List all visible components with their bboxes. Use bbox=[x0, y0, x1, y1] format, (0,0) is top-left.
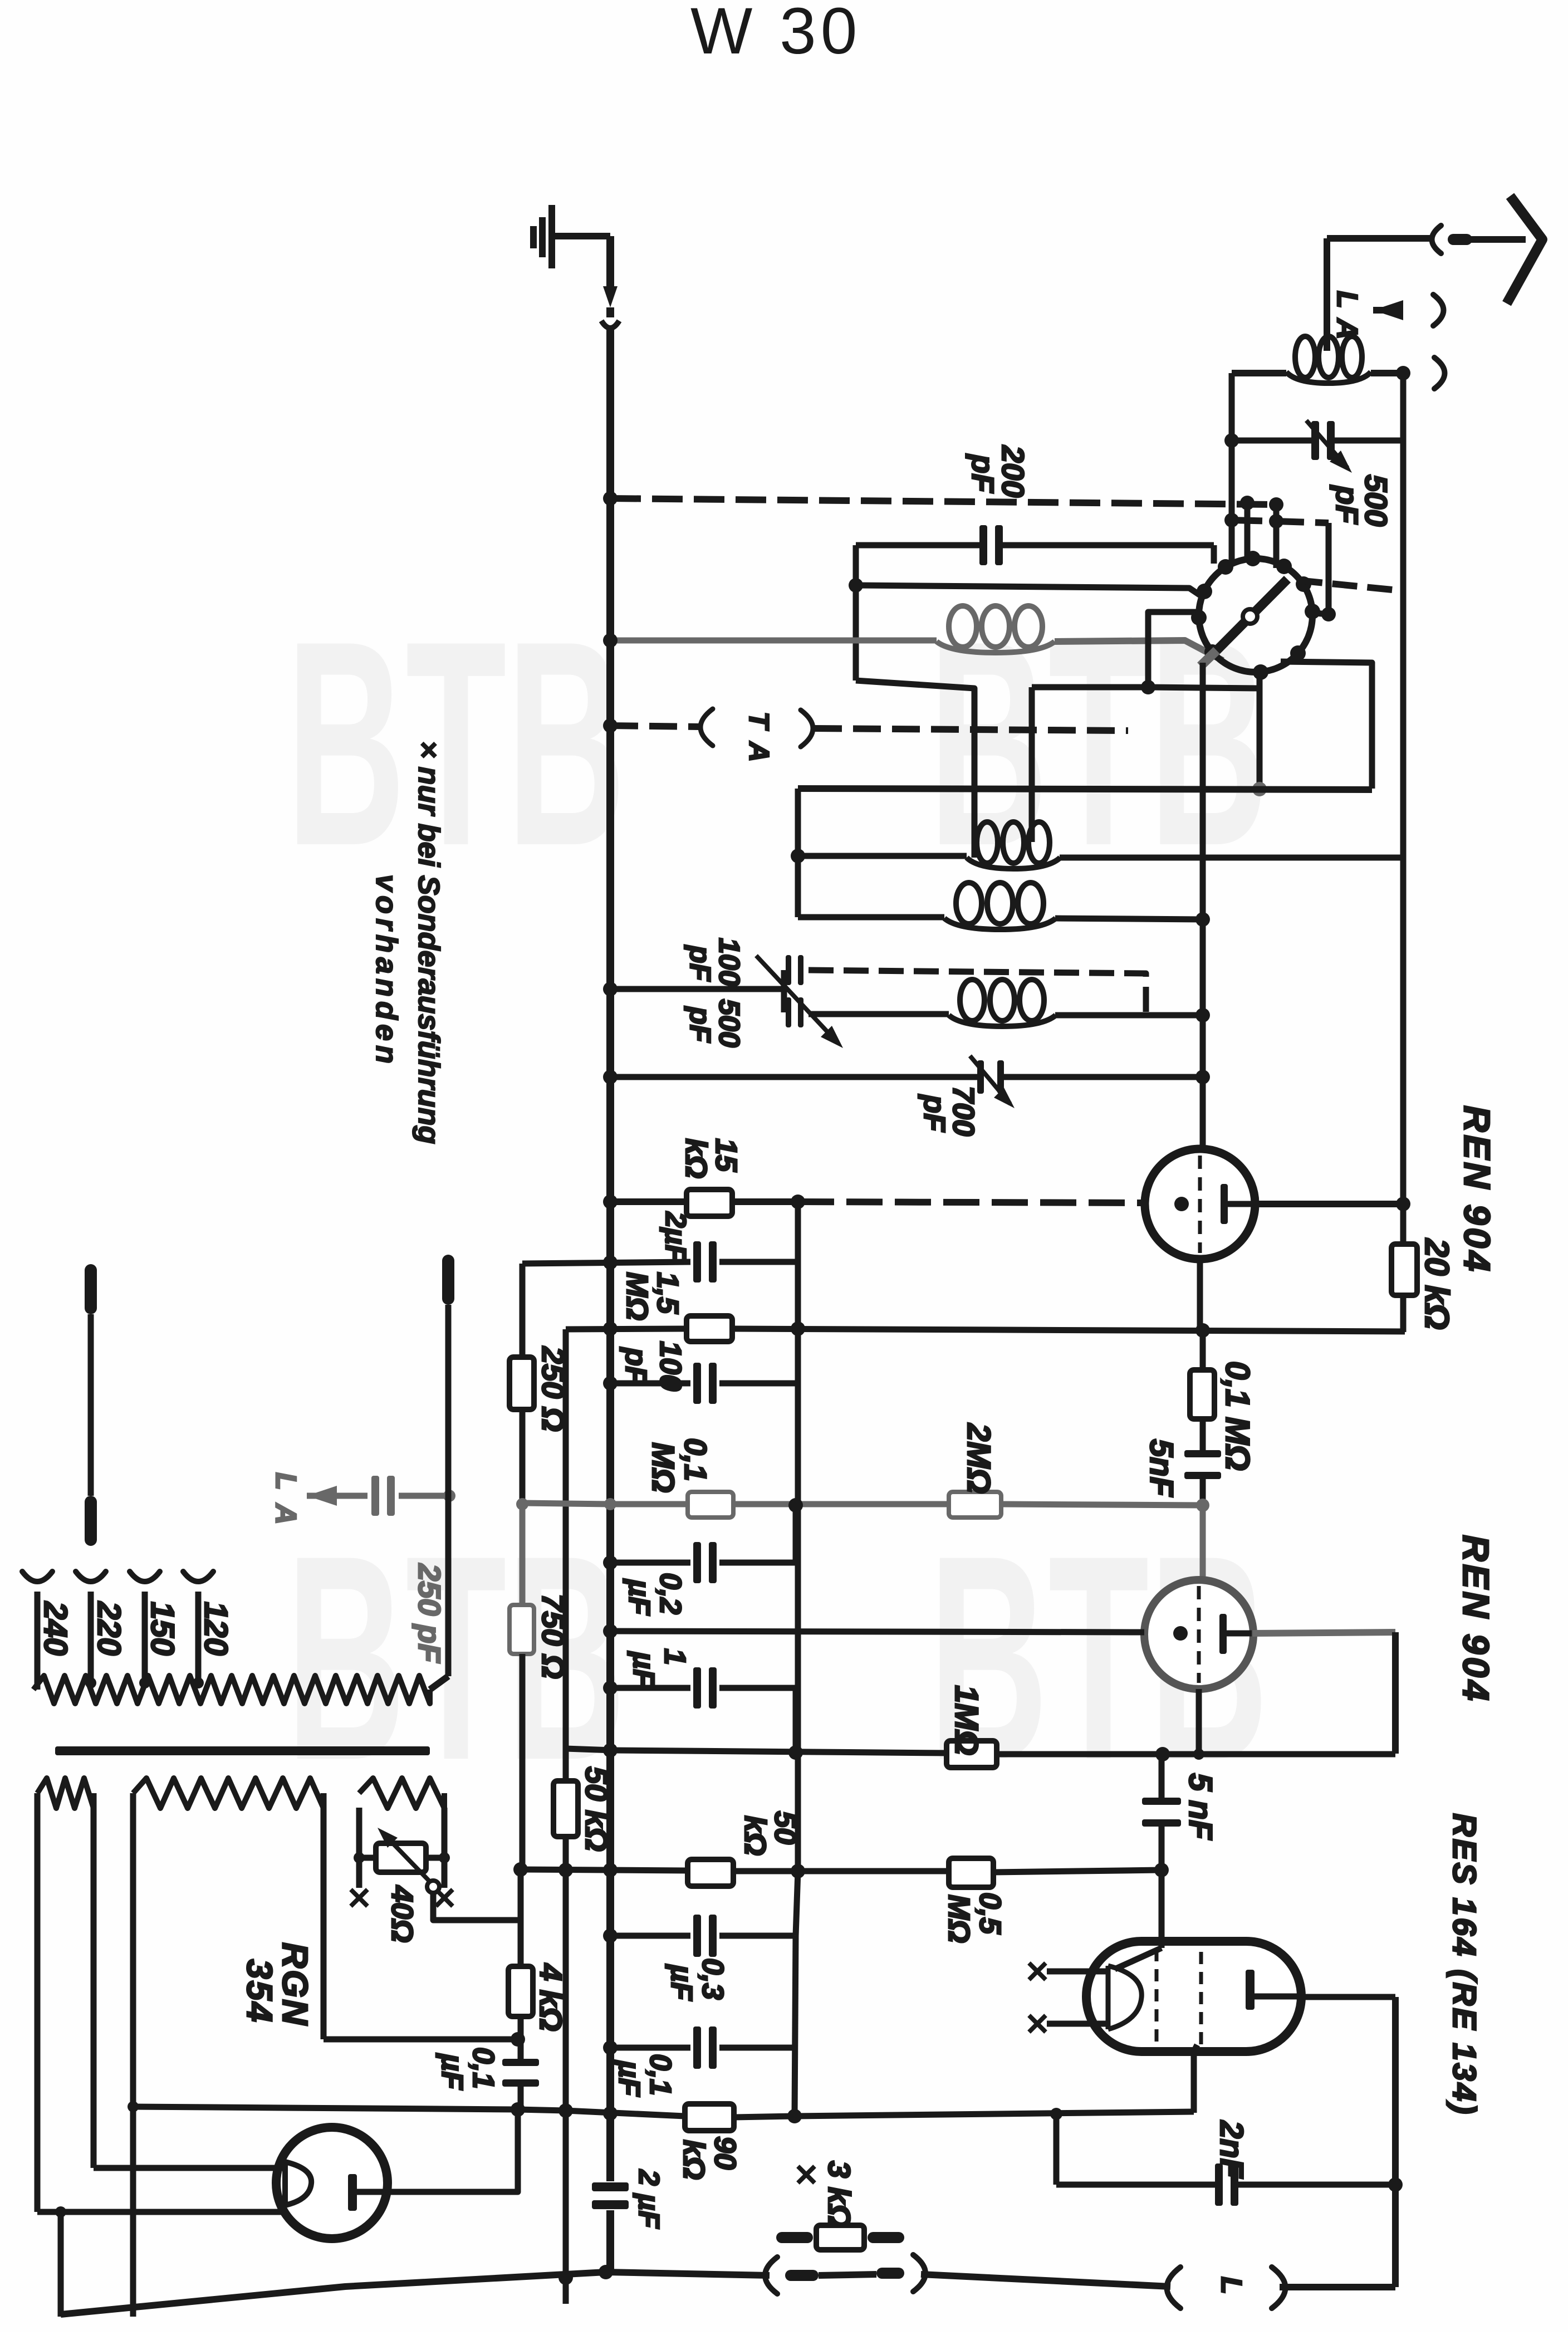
svg-text:1MΩ: 1MΩ bbox=[948, 1685, 984, 1755]
svg-text:2 µF: 2 µF bbox=[633, 2169, 665, 2229]
svg-text:MΩ: MΩ bbox=[620, 1272, 654, 1320]
svg-text:BTB: BTB bbox=[286, 1495, 626, 1821]
svg-text:150: 150 bbox=[144, 1602, 180, 1656]
svg-text:MΩ: MΩ bbox=[942, 1895, 976, 1943]
svg-text:100: 100 bbox=[713, 938, 745, 986]
svg-text:1,5: 1,5 bbox=[651, 1272, 684, 1314]
svg-text:T: T bbox=[743, 712, 775, 731]
svg-text:pF: pF bbox=[1330, 484, 1365, 525]
svg-text:RGN: RGN bbox=[275, 1942, 315, 2026]
svg-text:2nF: 2nF bbox=[1213, 2120, 1249, 2179]
svg-text:40Ω: 40Ω bbox=[385, 1885, 419, 1942]
svg-text:pF: pF bbox=[684, 1006, 716, 1043]
svg-text:1: 1 bbox=[658, 1648, 692, 1665]
svg-text:A: A bbox=[743, 741, 775, 762]
svg-text:0,5: 0,5 bbox=[973, 1892, 1007, 1935]
svg-text:µF: µF bbox=[435, 2053, 469, 2091]
svg-text:L: L bbox=[1331, 291, 1363, 309]
svg-text:15: 15 bbox=[709, 1138, 743, 1172]
svg-text:120: 120 bbox=[198, 1602, 234, 1656]
svg-text:L: L bbox=[1215, 2277, 1247, 2294]
svg-text:µF: µF bbox=[627, 1651, 660, 1688]
svg-text:× nur bei Sonderausführung: × nur bei Sonderausführung bbox=[412, 741, 445, 1144]
svg-text:250 pF: 250 pF bbox=[412, 1563, 447, 1663]
svg-text:pF: pF bbox=[966, 453, 1001, 493]
svg-text:RES 164 (RE 134): RES 164 (RE 134) bbox=[1446, 1813, 1482, 2116]
svg-text:kΩ: kΩ bbox=[738, 1815, 772, 1856]
svg-text:µF: µF bbox=[623, 1578, 656, 1616]
svg-text:vorhanden: vorhanden bbox=[370, 874, 403, 1068]
svg-text:5nF: 5nF bbox=[1143, 1439, 1179, 1497]
svg-text:0,2: 0,2 bbox=[654, 1573, 687, 1614]
svg-text:MΩ: MΩ bbox=[646, 1442, 681, 1492]
svg-text:0,3: 0,3 bbox=[696, 1958, 729, 2000]
svg-text:pF: pF bbox=[684, 944, 716, 982]
svg-text:354: 354 bbox=[239, 1959, 280, 2024]
svg-text:500: 500 bbox=[713, 999, 745, 1047]
svg-text:50 kΩ: 50 kΩ bbox=[579, 1766, 614, 1852]
svg-text:REN 904: REN 904 bbox=[1457, 1105, 1498, 1274]
svg-text:L: L bbox=[269, 1472, 302, 1490]
svg-text:pF: pF bbox=[918, 1094, 951, 1133]
svg-text:0,1: 0,1 bbox=[644, 2054, 677, 2096]
svg-text:pF: pF bbox=[619, 1347, 653, 1386]
svg-text:4 kΩ: 4 kΩ bbox=[533, 1963, 569, 2032]
svg-text:REN 904: REN 904 bbox=[1456, 1535, 1497, 1703]
svg-text:0,1: 0,1 bbox=[467, 2047, 500, 2089]
svg-text:100: 100 bbox=[654, 1341, 687, 1391]
svg-text:µF: µF bbox=[665, 1964, 698, 2001]
svg-text:kΩ: kΩ bbox=[679, 1138, 713, 1178]
svg-text:90: 90 bbox=[708, 2136, 742, 2170]
svg-text:220: 220 bbox=[91, 1601, 127, 1656]
svg-text:5 nF: 5 nF bbox=[1182, 1773, 1218, 1840]
svg-text:3 kΩ: 3 kΩ bbox=[822, 2161, 857, 2229]
svg-text:2MΩ: 2MΩ bbox=[961, 1423, 997, 1494]
svg-text:20 kΩ: 20 kΩ bbox=[1418, 1238, 1456, 1330]
svg-text:240: 240 bbox=[37, 1601, 73, 1656]
svg-text:700: 700 bbox=[947, 1086, 980, 1136]
svg-text:2µF: 2µF bbox=[659, 1211, 692, 1263]
svg-text:kΩ: kΩ bbox=[677, 2140, 710, 2180]
svg-text:µF: µF bbox=[612, 2059, 646, 2097]
svg-text:0,1: 0,1 bbox=[678, 1438, 713, 1481]
svg-text:0,1 MΩ: 0,1 MΩ bbox=[1219, 1361, 1256, 1471]
svg-text:BTB: BTB bbox=[286, 581, 626, 907]
svg-text:W 30: W 30 bbox=[690, 0, 861, 68]
svg-text:A: A bbox=[269, 1502, 302, 1525]
